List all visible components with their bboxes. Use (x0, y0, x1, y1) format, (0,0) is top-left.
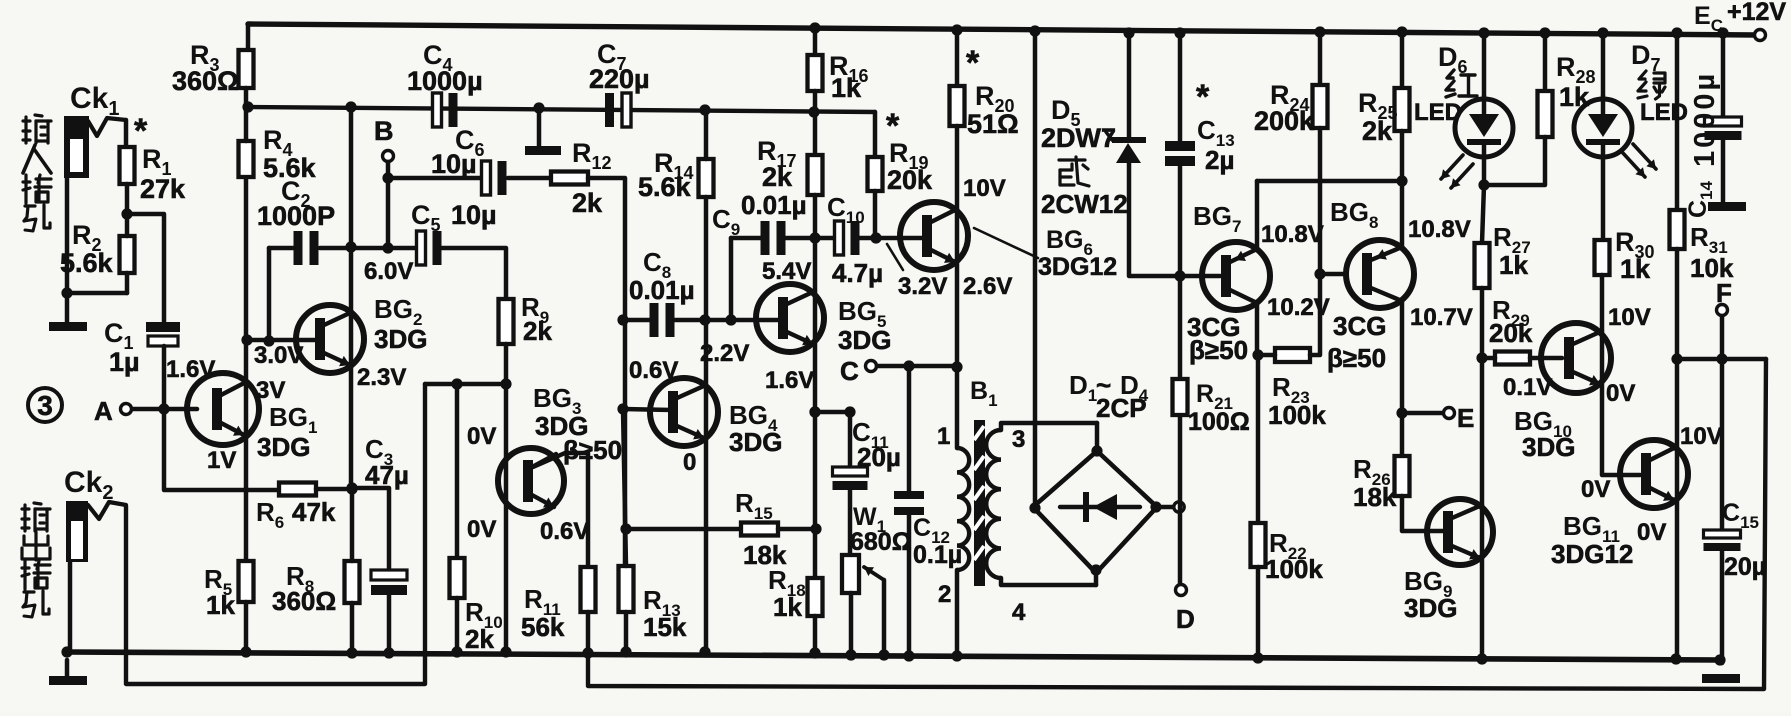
svg-text:10.8V: 10.8V (1408, 216, 1471, 243)
svg-text:2: 2 (938, 581, 951, 608)
svg-text:0.1V: 0.1V (1503, 374, 1552, 401)
svg-text:3.2V: 3.2V (898, 273, 947, 300)
svg-text:1k: 1k (831, 73, 862, 103)
svg-text:20k: 20k (887, 165, 933, 195)
svg-text:20µ: 20µ (1724, 553, 1766, 581)
svg-text:27k: 27k (140, 174, 186, 204)
svg-text:3CG: 3CG (1333, 311, 1386, 341)
svg-text:1000P: 1000P (257, 201, 335, 231)
svg-text:β≥50: β≥50 (1189, 335, 1248, 365)
svg-text:220µ: 220µ (589, 64, 650, 94)
svg-text:A: A (94, 396, 113, 426)
svg-text:2k: 2k (523, 316, 552, 346)
svg-text:10µ: 10µ (451, 200, 497, 230)
svg-text:10.2V: 10.2V (1267, 294, 1330, 321)
svg-text:3DG: 3DG (729, 427, 782, 457)
svg-text:1.6V: 1.6V (166, 356, 215, 383)
svg-text:2CP: 2CP (1096, 393, 1147, 423)
svg-text:3: 3 (37, 390, 53, 421)
svg-text:*: * (134, 112, 148, 150)
svg-text:β≥50: β≥50 (563, 435, 622, 465)
svg-text:4: 4 (1012, 599, 1026, 626)
svg-text:0.6V: 0.6V (629, 357, 678, 384)
svg-text:2DW7: 2DW7 (1041, 123, 1116, 153)
svg-text:2k: 2k (1362, 116, 1393, 146)
svg-text:1k: 1k (773, 592, 802, 622)
svg-text:3.0V: 3.0V (254, 342, 303, 369)
svg-text:+12V: +12V (1727, 0, 1786, 26)
svg-text:10µ: 10µ (431, 149, 477, 179)
svg-text:0V: 0V (1637, 519, 1666, 546)
svg-text:1000µ: 1000µ (407, 66, 483, 96)
svg-text:1.6V: 1.6V (765, 367, 814, 394)
svg-text:3DG: 3DG (374, 324, 427, 354)
svg-text:5.6k: 5.6k (60, 248, 114, 278)
svg-text:β≥50: β≥50 (1327, 343, 1386, 373)
svg-text:3DG12: 3DG12 (1551, 539, 1633, 569)
svg-text:15k: 15k (643, 612, 687, 642)
svg-text:1k: 1k (1559, 82, 1590, 112)
svg-text:680Ω: 680Ω (850, 528, 912, 556)
svg-text:3V: 3V (256, 377, 285, 404)
svg-text:2.2V: 2.2V (700, 340, 749, 367)
svg-text:200k: 200k (1254, 106, 1315, 136)
svg-text:B: B (374, 116, 394, 146)
svg-text:3DG: 3DG (838, 325, 891, 355)
svg-text:0: 0 (683, 449, 696, 476)
svg-text:100k: 100k (1268, 400, 1326, 430)
svg-text:18k: 18k (1353, 482, 1397, 512)
svg-text:2k: 2k (572, 188, 603, 218)
svg-text:C: C (840, 356, 859, 386)
svg-text:51Ω: 51Ω (967, 109, 1019, 139)
svg-text:10.7V: 10.7V (1410, 304, 1473, 331)
svg-text:1k: 1k (1499, 250, 1528, 280)
svg-text:360Ω: 360Ω (172, 66, 239, 96)
svg-text:E: E (1457, 403, 1474, 433)
svg-text:1V: 1V (207, 447, 236, 474)
svg-text:0.01µ: 0.01µ (629, 275, 695, 305)
svg-text:4.7µ: 4.7µ (832, 258, 883, 288)
svg-text:20k: 20k (1489, 318, 1533, 348)
svg-text:1k: 1k (1620, 254, 1651, 284)
svg-text:0V: 0V (1606, 380, 1635, 407)
svg-text:0V: 0V (467, 423, 496, 450)
svg-text:2µ: 2µ (1205, 145, 1234, 175)
svg-text:0.1µ: 0.1µ (913, 541, 962, 569)
svg-text:2.6V: 2.6V (963, 273, 1012, 300)
svg-text:3: 3 (1012, 426, 1025, 453)
svg-text:LED: LED (1640, 99, 1688, 126)
svg-text:3DG12: 3DG12 (1038, 253, 1117, 281)
svg-text:*: * (966, 44, 980, 82)
svg-text:0V: 0V (1581, 476, 1610, 503)
svg-text:5.6k: 5.6k (638, 172, 692, 202)
svg-text:0V: 0V (467, 516, 496, 543)
svg-text:2k: 2k (465, 624, 494, 654)
svg-text:1: 1 (937, 423, 950, 450)
svg-text:47k: 47k (292, 497, 336, 527)
svg-text:5.4V: 5.4V (762, 258, 811, 285)
svg-text:1000µ: 1000µ (1689, 71, 1721, 167)
svg-text:6.0V: 6.0V (364, 258, 413, 285)
svg-text:360Ω: 360Ω (272, 586, 336, 616)
svg-text:10V: 10V (963, 175, 1006, 202)
svg-text:2.3V: 2.3V (357, 364, 406, 391)
svg-text:100Ω: 100Ω (1188, 408, 1250, 436)
svg-text:2CW12: 2CW12 (1041, 189, 1128, 219)
svg-text:*: * (886, 107, 900, 145)
svg-text:3DG: 3DG (1404, 593, 1457, 623)
svg-text:*: * (1196, 78, 1210, 116)
svg-text:56k: 56k (521, 612, 565, 642)
svg-text:LED: LED (1414, 99, 1462, 126)
svg-text:F: F (1716, 278, 1732, 308)
svg-text:1k: 1k (206, 590, 235, 620)
svg-text:2k: 2k (762, 162, 793, 192)
svg-text:47µ: 47µ (365, 460, 409, 490)
svg-text:1µ: 1µ (109, 347, 140, 377)
svg-text:100k: 100k (1265, 554, 1323, 584)
svg-text:0.6V: 0.6V (540, 518, 589, 545)
svg-text:10.8V: 10.8V (1261, 221, 1324, 248)
svg-text:3DG: 3DG (1522, 432, 1575, 462)
svg-text:20µ: 20µ (857, 442, 901, 472)
svg-text:0.01µ: 0.01µ (741, 190, 807, 220)
svg-text:10V: 10V (1608, 304, 1651, 331)
svg-text:3DG: 3DG (257, 432, 310, 462)
svg-text:10V: 10V (1680, 423, 1723, 450)
svg-text:D: D (1176, 604, 1195, 634)
